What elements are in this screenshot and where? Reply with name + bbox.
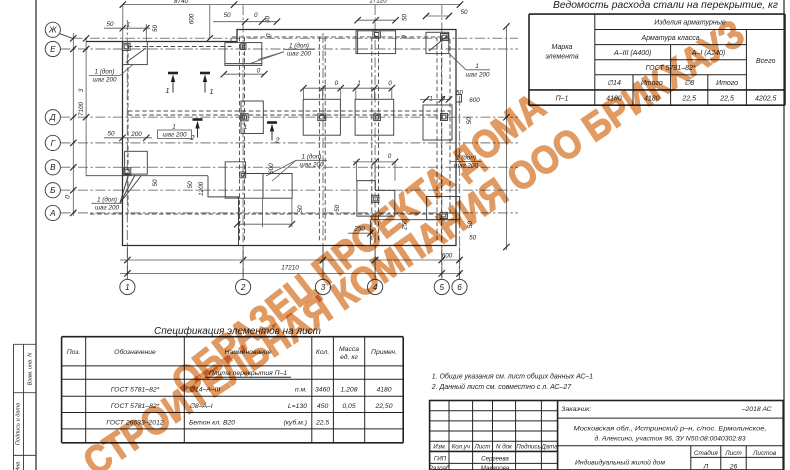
svg-text:0: 0 [65, 195, 72, 199]
dashed horizontal band [128, 110, 450, 112]
svg-text:50: 50 [460, 9, 468, 16]
svg-text:50: 50 [334, 204, 341, 212]
svg-text:17120: 17120 [369, 0, 387, 5]
svg-text:Масса: Масса [339, 346, 359, 353]
svg-text:Листов: Листов [752, 450, 777, 457]
svg-text:1 (доп): 1 (доп) [95, 68, 115, 76]
sheet frame right border [783, 0, 785, 470]
svg-text:Л: Л [702, 464, 708, 470]
svg-text:1: 1 [209, 87, 213, 96]
svg-text:Инв.: Инв. [16, 460, 22, 470]
svg-text:Д: Д [49, 113, 56, 122]
svg-text:50: 50 [106, 21, 114, 28]
svg-text:L=130: L=130 [288, 403, 307, 410]
svg-text:Е: Е [50, 45, 56, 54]
svg-text:200: 200 [130, 131, 142, 138]
svg-text:Стадия: Стадия [694, 449, 719, 457]
leader label 1(dop) shag 200 middle [266, 152, 327, 181]
svg-text:Б: Б [50, 186, 56, 195]
svg-text:ед. кг: ед. кг [340, 353, 358, 361]
section mark 2 right [267, 123, 280, 145]
svg-text:(куб.м.): (куб.м.) [283, 418, 307, 426]
column cluster axis1/B [125, 151, 148, 174]
dashed mesh outline [128, 37, 450, 214]
vertical axes dash-dot lines [127, 5, 459, 279]
title block right part [558, 418, 784, 470]
dim line above D-row squares [303, 87, 391, 89]
svg-text:2. Данный лист см. совмест: 2. Данный лист см. совместно с л. АС–27 [431, 383, 573, 391]
left vertical dimension line B (7100) [85, 38, 87, 175]
spec table grid [62, 337, 404, 443]
svg-text:шаг 200: шаг 200 [299, 161, 324, 168]
svg-text:600: 600 [189, 13, 196, 24]
svg-text:1: 1 [357, 80, 361, 87]
svg-text:1 (доп): 1 (доп) [302, 152, 322, 160]
slab right edge small notch [456, 95, 462, 102]
top right cluster dims [426, 15, 449, 17]
svg-text:ГИП: ГИП [434, 455, 447, 462]
svg-text:3: 3 [78, 88, 85, 92]
title block outer [430, 401, 784, 470]
dim line below cluster 3A [237, 223, 292, 225]
svg-text:0: 0 [388, 153, 392, 160]
svg-text:Разраб.: Разраб. [429, 465, 451, 470]
svg-text:50: 50 [466, 117, 473, 125]
svg-text:Сергеева: Сергеева [481, 455, 509, 462]
bottom overall dimension line 17210 [120, 272, 462, 274]
svg-text:50: 50 [402, 14, 409, 22]
section mark 1 right [200, 73, 214, 96]
svg-text:6: 6 [457, 283, 462, 292]
svg-text:Изм.: Изм. [433, 444, 446, 451]
svg-text:2: 2 [274, 136, 280, 145]
slab bottom-left notch step [208, 176, 239, 246]
frame attribute strip box [14, 344, 37, 470]
svg-text:1: 1 [125, 283, 130, 292]
column cluster axis5-6/A [427, 197, 460, 220]
dashed vertical strips [239, 37, 241, 241]
svg-text:1: 1 [475, 63, 479, 70]
svg-text:д. Алексино, участок 96, З: д. Алексино, участок 96, ЗУ N50:08:00403… [595, 435, 746, 443]
svg-text:1: 1 [165, 86, 169, 95]
svg-text:7100: 7100 [78, 102, 85, 117]
svg-text:0: 0 [401, 35, 408, 39]
slab left wing bottom edge [86, 175, 208, 177]
svg-text:2: 2 [189, 133, 195, 142]
svg-text:50: 50 [107, 130, 115, 137]
svg-text:1200: 1200 [198, 181, 205, 196]
bottom segment dimension line [120, 259, 462, 261]
leader label 1(dop) shag 200 top-left [89, 65, 133, 84]
svg-text:Марка: Марка [552, 44, 573, 51]
slab bottom-right ledge [370, 220, 456, 246]
extension lines Б4 dims [356, 162, 395, 181]
svg-text:А–III (А400): А–III (А400) [613, 50, 651, 57]
axis extensions to bottom circles [127, 247, 459, 280]
svg-text:5: 5 [440, 283, 445, 292]
svg-text:8740: 8740 [174, 0, 189, 5]
svg-text:Г: Г [51, 139, 56, 148]
svg-text:50: 50 [152, 25, 159, 33]
svg-text:Лист: Лист [474, 444, 491, 451]
svg-text:шаг 200: шаг 200 [287, 51, 312, 58]
column cluster axis2/D [241, 101, 263, 134]
svg-text:2: 2 [240, 283, 246, 292]
svg-text:шаг 200: шаг 200 [92, 77, 117, 84]
column cluster axis3/B stepped [225, 162, 263, 198]
svg-text:1: 1 [127, 22, 131, 29]
svg-text:Ж: Ж [48, 26, 57, 35]
svg-text:1 (доп): 1 (доп) [289, 41, 309, 49]
svg-text:Всего: Всего [756, 58, 775, 65]
svg-text:Лист: Лист [724, 450, 742, 457]
horizontal axes dash-dot lines [60, 38, 518, 213]
left vertical dimension line A with ticks [72, 33, 74, 216]
title block left grid [430, 401, 558, 470]
boxed label 1 shag 200 axis1/D [158, 123, 192, 138]
svg-text:Поз.: Поз. [67, 349, 81, 356]
svg-text:50: 50 [223, 12, 231, 19]
leader label 1(dop) shag 200 mid-right [451, 154, 482, 170]
svg-text:шаг 200: шаг 200 [162, 132, 187, 139]
axis circles bottom (1-6) [120, 279, 467, 294]
sheet frame left border [35, 0, 37, 470]
svg-text:22,5: 22,5 [719, 96, 734, 103]
svg-text:п.м.: п.м. [295, 387, 307, 394]
svg-text:Примеч.: Примеч. [371, 349, 397, 356]
svg-text:1,208: 1,208 [340, 387, 357, 394]
top-left secondary dims [104, 27, 150, 29]
svg-text:–2018 АС: –2018 АС [741, 406, 772, 413]
svg-text:0: 0 [254, 12, 258, 19]
svg-text:4202,5: 4202,5 [755, 96, 777, 103]
dim 250 bottom middle [348, 232, 373, 234]
svg-text:22,5: 22,5 [681, 96, 696, 103]
svg-text:Итого: Итого [716, 80, 738, 87]
svg-text:Кол.: Кол. [316, 349, 329, 356]
svg-text:N док: N док [496, 444, 513, 451]
leader label 1(dop) shag 200 axis2-top [250, 41, 315, 63]
leader label 1(dop) shag 200 left-bottom [92, 195, 123, 211]
svg-text:шаг 200: шаг 200 [465, 71, 490, 78]
extension lines D-row dims [303, 88, 391, 99]
svg-text:50: 50 [187, 181, 194, 189]
svg-text:Ведомость расхода стали на: Ведомость расхода стали на перекрытие, к… [553, 0, 778, 11]
svg-text:22,50: 22,50 [374, 403, 392, 410]
svg-text:Обозначение: Обозначение [114, 348, 156, 356]
slab outline main contour [123, 30, 457, 246]
svg-text:ГОСТ 5781–82*: ГОСТ 5781–82* [111, 387, 160, 394]
dashed segment left of slab at axis A level [90, 213, 128, 215]
vertical extension at 600 step [209, 5, 211, 39]
leader label 1 shag 200 right-top [449, 54, 490, 79]
svg-text:Бетон кл. В20: Бетон кл. В20 [189, 419, 235, 426]
svg-text:Дата: Дата [540, 444, 558, 451]
top mid cluster dims [358, 19, 396, 21]
svg-text:3460: 3460 [315, 387, 330, 394]
svg-text:0: 0 [335, 80, 339, 87]
svg-text:Московская обл., Истринский: Московская обл., Истринский р–н, с/пос. … [574, 425, 767, 433]
svg-text:В: В [50, 163, 56, 172]
svg-text:0: 0 [388, 80, 392, 87]
svg-text:50: 50 [152, 179, 159, 187]
dim line above Б4 cluster [353, 161, 396, 163]
svg-text:1. Общие указания см. лист: 1. Общие указания см. лист общих данных … [432, 372, 594, 380]
svg-text:1: 1 [244, 124, 248, 131]
column cluster axis3/D [303, 99, 340, 135]
column cluster axis4/D [355, 99, 394, 135]
svg-text:26: 26 [729, 464, 738, 470]
svg-text:22,5: 22,5 [315, 419, 329, 426]
steel table grid [529, 14, 785, 105]
right vertical dimension line [505, 26, 507, 250]
svg-text:0: 0 [266, 33, 273, 37]
axis circles left (Ж Е Д Г В Б А) [45, 22, 72, 220]
svg-text:1 (доп): 1 (доп) [97, 195, 117, 203]
svg-text:450: 450 [317, 403, 329, 410]
svg-text:0: 0 [257, 68, 261, 75]
dim 50 and 200 near axis1/D [104, 137, 152, 139]
svg-text:П–1: П–1 [556, 96, 569, 103]
svg-text:600: 600 [469, 97, 480, 104]
column cluster axis1/E with add-rebar zone [123, 42, 148, 65]
svg-text:А: А [49, 209, 56, 218]
svg-text:Подпись: Подпись [516, 444, 541, 451]
svg-text:элемента: элемента [545, 54, 578, 61]
column cluster axis2 top [225, 43, 262, 66]
section mark 1 left [165, 73, 178, 95]
top overall dimension line [123, 4, 460, 6]
svg-text:1: 1 [172, 123, 176, 130]
svg-text:50: 50 [456, 90, 464, 97]
svg-text:0,05: 0,05 [342, 403, 355, 410]
svg-text:600: 600 [268, 163, 275, 174]
svg-text:Кол.уч: Кол.уч [452, 444, 471, 451]
column cluster axis4 top [356, 31, 396, 54]
svg-text:Макарова: Макарова [481, 465, 510, 470]
slab left wing top edge [86, 41, 123, 43]
watermark line 1 [164, 85, 554, 404]
svg-text:Взам. инв. N: Взам. инв. N [28, 352, 34, 386]
section mark 2 left [189, 120, 202, 143]
svg-text:Заказчик:: Заказчик: [561, 406, 591, 413]
column cluster axis4/Б stepped [357, 181, 395, 217]
svg-text:Индивидуальный жилой дом: Индивидуальный жилой дом [575, 459, 665, 467]
svg-text:шаг 200: шаг 200 [95, 204, 120, 211]
svg-text:Подпись и дата: Подпись и дата [16, 403, 22, 445]
column cluster axis5 top [426, 32, 449, 53]
column cluster axis5/D right edge [423, 105, 452, 140]
svg-text:4180: 4180 [376, 387, 391, 394]
svg-text:50: 50 [297, 205, 304, 213]
